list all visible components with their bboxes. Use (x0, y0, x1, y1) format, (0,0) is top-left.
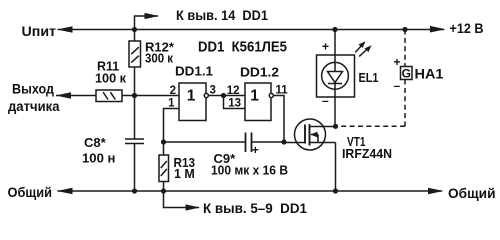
wire C8 bottom (134, 144, 136, 192)
wire stub to pin 14 DD1 (135, 16, 159, 30)
node junction bottom R13 (161, 188, 166, 193)
svg-text:Общий: Общий (8, 185, 53, 200)
wire sensor output (56, 95, 96, 97)
svg-text:2: 2 (170, 85, 176, 97)
wire R12 bottom (134, 67, 136, 96)
capacitor C8 (125, 138, 144, 140)
node right Общий arrow (428, 188, 444, 195)
svg-text:–: – (394, 78, 401, 92)
node junction R13/C9/pin1 (161, 139, 166, 144)
svg-text:100 н: 100 н (82, 151, 116, 165)
wire C9 right to gate node (252, 141, 285, 143)
wire DD1.1 pin1 (164, 109, 180, 143)
svg-text:DD1.1: DD1.1 (175, 65, 213, 79)
svg-text:13: 13 (228, 98, 241, 110)
buzzer HA1 box (401, 67, 413, 80)
wire R12 top (134, 30, 136, 42)
svg-text:К выв. 14 DD1: К выв. 14 DD1 (176, 8, 268, 23)
node light arrow 1 (355, 44, 363, 52)
wire EL1 top (334, 30, 336, 72)
wire HA1 dashed top (404, 30, 406, 67)
lamp EL1 box (317, 55, 355, 97)
wire C9 left (164, 141, 246, 143)
op-amp DD1.1 (NOR gate) (179, 83, 206, 121)
svg-text:1: 1 (250, 87, 259, 104)
svg-text:1 М: 1 М (174, 167, 195, 181)
svg-text:+: + (322, 40, 329, 54)
resistor R11 (96, 90, 122, 102)
svg-text:12: 12 (227, 85, 240, 97)
node junction gate (281, 139, 286, 144)
svg-text:Uпит: Uпит (22, 23, 57, 39)
svg-text:1: 1 (187, 87, 196, 104)
wire R11 to DD1.1 pin2 (122, 95, 179, 97)
node arrow to pins 5-9 (186, 204, 201, 210)
resistor R12 (129, 41, 141, 67)
node junction drain (333, 124, 338, 129)
svg-text:100 мк x 16 В: 100 мк x 16 В (211, 163, 288, 177)
wire EL1 bottom to drain node (334, 84, 336, 127)
svg-text:+12 В: +12 В (450, 21, 484, 36)
node Uпит arrow (left) (57, 26, 73, 33)
node junction R11/R12/C8 (132, 93, 137, 98)
node junction top R12 (132, 27, 137, 32)
svg-text:DD1 К561ЛЕ5: DD1 К561ЛЕ5 (198, 39, 287, 56)
wire DD1.2 out (274, 96, 285, 143)
svg-text:EL1: EL1 (359, 70, 379, 85)
wire HA1 dashed horizontal (338, 125, 405, 127)
wire VT1 source down (335, 143, 337, 192)
svg-text:300 к: 300 к (145, 52, 174, 66)
svg-text:–: – (322, 94, 329, 108)
node junction top EL1 (332, 27, 337, 32)
svg-text:C8*: C8* (84, 135, 107, 150)
wire DD1.1 out to DD1.2 in (209, 95, 246, 97)
resistor R13 (163, 142, 165, 155)
wire HA1 dashed bottom (404, 80, 406, 127)
svg-text:+: + (252, 145, 259, 157)
wire bottom common rail (58, 190, 443, 192)
node junction DD1.1 out (221, 93, 226, 98)
node junction bottom C8 (132, 188, 137, 193)
node junction top HA1 (402, 27, 407, 32)
node arrow to pin14 (145, 13, 160, 19)
wire stub to pins 5-9 DD1 (164, 191, 200, 208)
node light arrow 2 (359, 48, 368, 56)
node junction bottom VT1 (333, 188, 338, 193)
svg-text:DD1.2: DD1.2 (240, 65, 279, 79)
svg-text:G: G (402, 67, 411, 81)
wire C8 top (134, 96, 136, 140)
node left Общий arrow (57, 188, 73, 195)
svg-text:датчика: датчика (8, 99, 60, 114)
svg-text:HA1: HA1 (415, 67, 445, 82)
svg-text:+: + (394, 55, 401, 69)
node +12V arrow (right) (430, 26, 446, 33)
svg-text:3: 3 (210, 85, 216, 97)
svg-text:Общий: Общий (448, 186, 496, 201)
svg-text:К выв. 5–9 DD1: К выв. 5–9 DD1 (203, 201, 307, 216)
svg-text:100 к: 100 к (95, 71, 127, 85)
wire top +12V rail (58, 29, 445, 31)
transistor VT1 (295, 119, 326, 150)
capacitor C9 (245, 133, 247, 153)
svg-text:11: 11 (276, 85, 289, 97)
op-amp DD1.2 (NOR gate) (245, 83, 271, 121)
svg-text:Выход: Выход (12, 82, 54, 97)
svg-text:1: 1 (168, 98, 175, 110)
svg-text:IRFZ44N: IRFZ44N (342, 146, 392, 161)
wire gate (284, 142, 305, 144)
diode EL1 circle (322, 62, 349, 89)
node sensor arrow (left) (56, 92, 72, 99)
